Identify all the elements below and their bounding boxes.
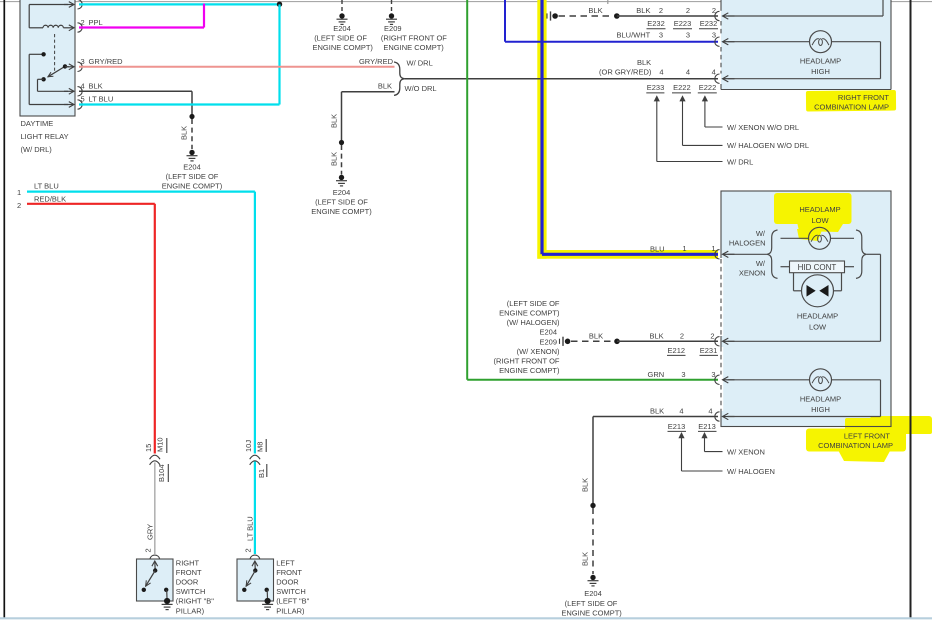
callout arrow W/ XENON W/O DRL	[702, 95, 708, 101]
stub mark top	[607, 0, 609, 4]
wire BLK pin4 drop to ground	[592, 417, 594, 506]
svg-text:(LEFT SIDE OF: (LEFT SIDE OF	[166, 172, 219, 181]
svg-text:3: 3	[81, 57, 85, 66]
highlight: BLU wire (yellow band vertical)	[537, 0, 546, 259]
ground E204 (relay pin4)	[189, 150, 194, 155]
node: splice left lamp pin2	[614, 339, 620, 345]
wire GRY to right front door switch	[154, 463, 156, 555]
svg-text:E204: E204	[333, 24, 351, 33]
svg-text:E213: E213	[668, 422, 686, 431]
svg-text:2: 2	[244, 548, 253, 552]
svg-text:HID CONT: HID CONT	[798, 263, 837, 272]
svg-text:4: 4	[686, 67, 690, 76]
svg-text:HEADLAMP: HEADLAMP	[800, 57, 841, 66]
svg-text:BLK: BLK	[650, 331, 664, 340]
svg-text:HALOGEN: HALOGEN	[729, 239, 766, 248]
svg-text:(RIGHT FRONT OF: (RIGHT FRONT OF	[494, 356, 560, 365]
svg-text:COMBINATION LAMP: COMBINATION LAMP	[818, 441, 893, 450]
right front combination lamp U-RF border	[720, 0, 722, 11]
svg-text:W/ DRL: W/ DRL	[407, 59, 433, 68]
left front door switch pin 2 arc	[250, 555, 260, 559]
right lamp internal wire bulb to pin4 loop	[832, 41, 881, 43]
page right border	[910, 0, 912, 618]
right front combination lamp body	[721, 0, 891, 90]
svg-text:LOW: LOW	[809, 322, 827, 331]
svg-text:ENGINE COMPT): ENGINE COMPT)	[499, 308, 560, 317]
svg-text:E222: E222	[699, 83, 717, 92]
svg-text:1: 1	[682, 244, 686, 253]
relay K1 coil	[29, 27, 43, 29]
svg-text:DAYTIME: DAYTIME	[21, 119, 54, 128]
xenon row: HID CONT module	[781, 266, 790, 268]
ground E204 (W/O DRL branch)	[339, 175, 344, 180]
svg-text:ENGINE COMPT): ENGINE COMPT)	[162, 182, 223, 191]
callout arrow W/ HALOGEN W/O DRL	[679, 95, 685, 101]
callout arrow W/ HALOGEN	[678, 432, 684, 438]
highlight: HEADLAMP LOW title	[774, 193, 852, 241]
svg-text:W/O DRL: W/O DRL	[405, 84, 437, 93]
svg-text:ENGINE COMPT): ENGINE COMPT)	[499, 366, 560, 375]
left front door switch ground	[265, 598, 271, 604]
wire LT BLU relay pin5	[79, 103, 280, 105]
svg-text:2: 2	[144, 548, 153, 552]
svg-text:HEADLAMP: HEADLAMP	[799, 205, 840, 214]
connector: BLK pigtail end (left lamp pin2)	[559, 339, 561, 344]
highlight: BLU wire (yellow band horizontal)	[537, 250, 718, 259]
wire BLK dashed to ground (W/O DRL)	[341, 145, 343, 175]
right lamp pin 2	[715, 11, 720, 20]
wire BLK dashed to ground (relay)	[191, 119, 193, 149]
svg-text:2: 2	[81, 18, 85, 27]
callout arrow W/ XENON	[701, 432, 707, 438]
svg-text:BLK: BLK	[650, 407, 664, 416]
wire BLU/WHT into right lamp pin3	[505, 41, 718, 43]
svg-text:(LEFT SIDE OF: (LEFT SIDE OF	[507, 299, 560, 308]
wire BLK relay pin4	[79, 90, 192, 92]
wire BLK dashed to ground (left lamp)	[592, 508, 594, 574]
svg-text:HIGH: HIGH	[811, 405, 830, 414]
wire GRN vertical from top	[466, 0, 468, 380]
svg-text:COMBINATION LAMP: COMBINATION LAMP	[814, 102, 889, 111]
svg-text:W/: W/	[756, 259, 766, 268]
svg-text:HEADLAMP: HEADLAMP	[800, 395, 841, 404]
ground E204 (left side of engine compt, top)	[341, 0, 343, 11]
svg-text:B104: B104	[157, 464, 166, 482]
svg-text:(W/ DRL): (W/ DRL)	[21, 145, 53, 154]
svg-text:(LEFT SIDE OF: (LEFT SIDE OF	[565, 599, 618, 608]
svg-text:10J: 10J	[244, 440, 253, 452]
svg-text:3: 3	[659, 30, 663, 39]
svg-text:LIGHT RELAY: LIGHT RELAY	[21, 132, 69, 141]
svg-text:XENON: XENON	[739, 269, 766, 278]
svg-text:BLU/WHT: BLU/WHT	[617, 30, 651, 39]
svg-text:E233: E233	[647, 83, 665, 92]
relay K1 pin 3 internal wire	[65, 66, 69, 68]
node: splice on W/O DRL BLK drop	[339, 140, 344, 145]
svg-text:BLU: BLU	[650, 245, 665, 254]
svg-text:LT BLU: LT BLU	[89, 95, 114, 104]
svg-text:E222: E222	[673, 83, 691, 92]
xenon arc lamp: headlamp low	[793, 273, 795, 291]
wire BLK left lamp pin4	[593, 416, 718, 418]
svg-text:SWITCH: SWITCH	[276, 587, 306, 596]
left front combination lamp U-LF border	[721, 191, 891, 427]
svg-text:E232: E232	[647, 19, 665, 28]
svg-text:DOOR: DOOR	[276, 578, 299, 587]
relay K1 coil-switch dashed link	[54, 34, 56, 72]
wire PPL relay pin2 (magenta)	[79, 26, 204, 28]
svg-text:HIGH: HIGH	[811, 67, 830, 76]
svg-text:FRONT: FRONT	[276, 568, 302, 577]
svg-text:LT BLU: LT BLU	[34, 181, 59, 190]
connector M10/B104 on RED/BLK wire	[150, 455, 160, 459]
relay K1 switch arm	[48, 66, 65, 76]
highlight: RIGHT FRONT COMBINATION LAMP label	[806, 90, 896, 111]
wire BLK (OR GRY/RED) merged to right lamp pin4	[405, 78, 718, 80]
wire LT BLU vertical branch	[278, 4, 280, 104]
callout arrow W/ DRL	[654, 95, 660, 101]
right front door switch internals	[152, 561, 158, 566]
right front door switch ground	[164, 598, 170, 604]
svg-text:5: 5	[81, 95, 85, 104]
page left border	[3, 0, 5, 618]
svg-text:ENGINE COMPT): ENGINE COMPT)	[383, 43, 444, 52]
svg-text:W/ XENON W/O DRL: W/ XENON W/O DRL	[727, 123, 799, 132]
svg-text:2: 2	[680, 331, 684, 340]
svg-text:HEADLAMP: HEADLAMP	[797, 311, 838, 320]
svg-text:3: 3	[681, 370, 685, 379]
right lamp pin 3	[715, 37, 720, 46]
svg-text:(W/ HALOGEN): (W/ HALOGEN)	[507, 318, 560, 327]
svg-text:(LEFT "B": (LEFT "B"	[276, 597, 309, 606]
svg-text:(RIGHT "B": (RIGHT "B"	[176, 597, 214, 606]
left lamp pin 1	[715, 250, 720, 259]
svg-text:BLK: BLK	[330, 114, 339, 128]
svg-text:LT BLU: LT BLU	[245, 516, 254, 541]
svg-text:E232: E232	[700, 19, 718, 28]
left front door switch body	[237, 559, 274, 601]
left lamp pin 3	[715, 375, 720, 384]
daytime light relay K1 body	[20, 0, 75, 116]
brace left (halogen/xenon options)	[767, 230, 777, 278]
left front door switch internals	[252, 561, 258, 566]
svg-text:4: 4	[708, 407, 712, 416]
svg-text:2: 2	[710, 331, 714, 340]
wire BLK dashed (right lamp pin2)	[559, 15, 612, 17]
left lamp internal wire pin1 to brace	[728, 253, 768, 255]
svg-text:2: 2	[686, 6, 690, 15]
node: splice on relay pin4 BLK drop	[189, 114, 194, 119]
svg-text:BLK: BLK	[330, 152, 339, 166]
relay K1 pin 5 internal wire	[28, 54, 30, 104]
svg-text:W/ XENON: W/ XENON	[727, 447, 765, 456]
right lamp pin 4	[715, 74, 720, 83]
ground E209 (right front of engine compt, top)	[391, 0, 393, 11]
svg-text:1: 1	[711, 244, 715, 253]
svg-text:3: 3	[712, 30, 716, 39]
svg-text:FRONT: FRONT	[176, 568, 202, 577]
svg-text:W/ HALOGEN: W/ HALOGEN	[727, 467, 775, 476]
svg-text:ENGINE COMPT): ENGINE COMPT)	[561, 608, 622, 617]
wire BLK dashed (left lamp pin2)	[571, 340, 612, 342]
svg-text:BLK: BLK	[588, 6, 602, 15]
relay K1 pin 1 internal wire	[29, 4, 68, 6]
node: splice on pin4 BLK drop	[590, 503, 595, 508]
highlight: LEFT FRONT COMBINATION LAMP label	[806, 416, 932, 462]
svg-text:E212: E212	[668, 346, 686, 355]
halogen row wire + bulb headlamp low	[781, 237, 809, 239]
svg-text:E204: E204	[183, 163, 201, 172]
brace merging W/ DRL and W/O DRL wires	[394, 62, 405, 95]
svg-text:LEFT FRONT: LEFT FRONT	[844, 432, 891, 441]
svg-text:(LEFT SIDE OF: (LEFT SIDE OF	[315, 198, 368, 207]
svg-text:M10: M10	[155, 437, 164, 452]
wire BLU vertical (highlighted)	[540, 0, 543, 254]
relay K1 switch fixed contact (pin5 side)	[29, 53, 43, 55]
right lamp internal wire pin3 to bulb	[728, 41, 810, 43]
node: splice right lamp pin2	[614, 13, 620, 19]
svg-text:BLK: BLK	[378, 82, 392, 91]
svg-text:ENGINE COMPT): ENGINE COMPT)	[311, 207, 372, 216]
wire BLK to left lamp pin2	[617, 340, 718, 342]
svg-text:W/ DRL: W/ DRL	[727, 157, 753, 166]
wire LT BLU relay pin1 (cyan, top)	[79, 3, 280, 5]
svg-text:15: 15	[144, 444, 153, 452]
svg-text:3: 3	[686, 30, 690, 39]
left lamp pin 2	[715, 337, 720, 346]
svg-text:LOW: LOW	[811, 216, 829, 225]
svg-text:PILLAR): PILLAR)	[276, 606, 305, 615]
bulb: headlamp high (left)	[810, 369, 832, 391]
page bottom border	[0, 617, 932, 619]
svg-text:W/ HALOGEN W/O DRL: W/ HALOGEN W/O DRL	[727, 141, 809, 150]
wire LT BLU to left front door switch	[254, 462, 256, 555]
svg-text:4: 4	[679, 407, 683, 416]
svg-text:4: 4	[81, 81, 85, 90]
connector: BLK pigtail end (right lamp pin2)	[546, 13, 548, 18]
right front door switch pin 2 arc	[150, 555, 160, 559]
svg-text:2: 2	[17, 201, 21, 210]
svg-text:BLK: BLK	[89, 81, 103, 90]
svg-text:2: 2	[659, 6, 663, 15]
wire GRN into left lamp pin3	[467, 379, 718, 381]
svg-text:E209: E209	[384, 24, 402, 33]
svg-text:4: 4	[712, 67, 716, 76]
svg-text:GRN: GRN	[648, 370, 665, 379]
svg-text:(W/ XENON): (W/ XENON)	[517, 347, 560, 356]
right front door switch body	[137, 559, 174, 601]
svg-text:SWITCH: SWITCH	[176, 587, 206, 596]
bulb: headlamp high (right)	[810, 31, 832, 53]
wire BLU/WHT vertical from top	[504, 0, 506, 42]
wire GRY/RED relay pin3	[79, 66, 395, 68]
svg-text:(OR GRY/RED): (OR GRY/RED)	[599, 67, 652, 76]
svg-text:RIGHT FRONT: RIGHT FRONT	[838, 93, 890, 102]
svg-text:DOOR: DOOR	[176, 578, 199, 587]
wire: page top frame line	[0, 1, 932, 3]
svg-text:E204: E204	[584, 589, 602, 598]
svg-text:4: 4	[659, 67, 663, 76]
connector M8/B1 on LT BLU wire	[250, 455, 260, 459]
svg-text:E213: E213	[698, 422, 716, 431]
svg-text:GRY/RED: GRY/RED	[359, 57, 394, 66]
relay K1 pin 4 internal wire	[38, 78, 44, 80]
svg-text:B1: B1	[257, 469, 266, 478]
svg-text:(RIGHT FRONT OF: (RIGHT FRONT OF	[381, 33, 447, 42]
svg-text:ENGINE COMPT): ENGINE COMPT)	[312, 43, 373, 52]
svg-text:E209: E209	[539, 337, 557, 346]
svg-text:LEFT: LEFT	[276, 558, 295, 567]
ground E204 (left lamp pin4)	[590, 575, 595, 580]
svg-text:E204: E204	[539, 327, 557, 336]
relay K1 pin arcs	[78, 0, 83, 9]
svg-text:E231: E231	[700, 346, 718, 355]
node: junction on LT BLU top wire	[277, 1, 282, 6]
left front combination lamp body	[721, 191, 891, 427]
svg-text:GRY/RED: GRY/RED	[89, 57, 124, 66]
brace right (halogen/xenon options)	[856, 230, 866, 278]
right lamp internal wire pin2 to top	[728, 15, 883, 17]
svg-text:E223: E223	[674, 19, 692, 28]
svg-text:PILLAR): PILLAR)	[176, 606, 205, 615]
wire from brace to pin2 loop	[866, 253, 880, 255]
wire BLU into left lamp pin1 (highlighted)	[542, 253, 718, 256]
svg-text:GRY: GRY	[145, 524, 154, 540]
svg-text:M8: M8	[255, 442, 264, 452]
svg-text:BLK: BLK	[637, 58, 651, 67]
svg-text:BLK: BLK	[180, 126, 189, 140]
svg-text:W/: W/	[756, 229, 766, 238]
svg-text:RIGHT: RIGHT	[176, 558, 200, 567]
svg-text:RED/BLK: RED/BLK	[34, 194, 66, 203]
svg-text:BLK: BLK	[581, 552, 590, 566]
svg-text:BLK: BLK	[589, 331, 603, 340]
left lamp pin 4	[715, 412, 720, 421]
svg-text:1: 1	[17, 188, 21, 197]
svg-text:BLK: BLK	[636, 6, 650, 15]
svg-text:BLK: BLK	[581, 478, 590, 492]
left lamp internal wire pin3 to bulb	[728, 379, 810, 381]
svg-text:E204: E204	[333, 188, 351, 197]
svg-text:(LEFT SIDE OF: (LEFT SIDE OF	[314, 33, 367, 42]
svg-text:PPL: PPL	[89, 18, 103, 27]
wire BLK to right lamp pin2	[617, 15, 718, 17]
